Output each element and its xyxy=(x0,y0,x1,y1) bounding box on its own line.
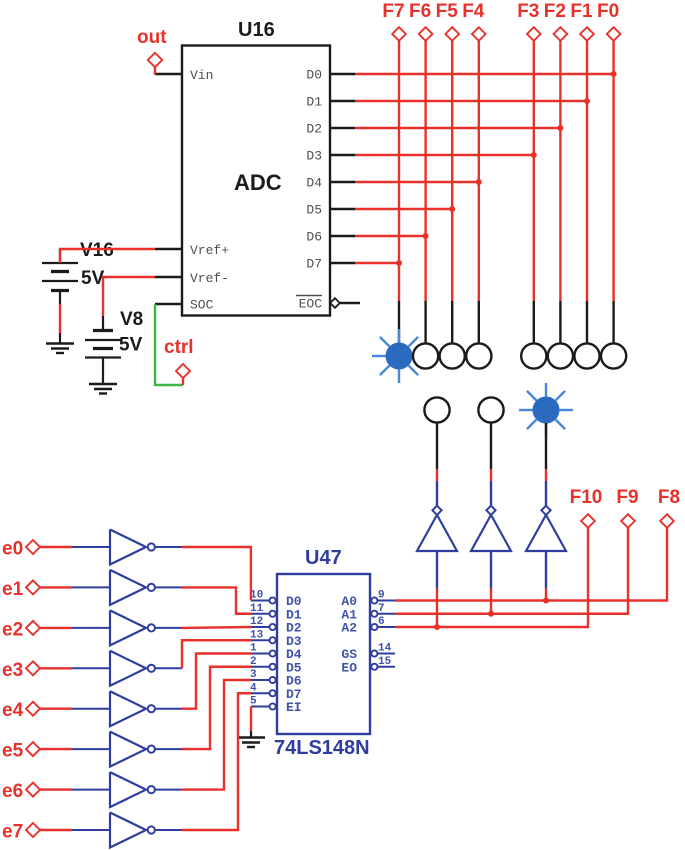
svg-text:1: 1 xyxy=(250,643,257,655)
node F1 riser wire xyxy=(586,41,588,301)
svg-text:F7: F7 xyxy=(382,1,404,22)
svg-text:Vref-: Vref- xyxy=(190,271,229,286)
svg-text:F5: F5 xyxy=(436,1,459,22)
svg-text:F10: F10 xyxy=(570,487,603,508)
node F6 riser wire xyxy=(424,41,426,301)
svg-text:e7: e7 xyxy=(2,822,23,843)
svg-text:U16: U16 xyxy=(238,19,275,41)
probe X4 xyxy=(466,343,491,368)
junction dot D6 xyxy=(423,233,429,239)
connector ctrl diamond xyxy=(176,364,190,378)
probe X7 xyxy=(574,343,599,368)
pin stub D1 xyxy=(330,100,355,102)
connector e2 diamond xyxy=(26,621,40,635)
buffer U11 output stub xyxy=(155,586,182,588)
wire probe lead F5 xyxy=(451,301,453,344)
junction dot A2 xyxy=(434,624,440,630)
wire probe lead F3 xyxy=(533,301,535,344)
svg-text:5: 5 xyxy=(250,696,257,708)
ground at EI xyxy=(250,731,252,738)
junction dot D1 xyxy=(584,98,590,104)
wire ctrl stub xyxy=(182,377,184,385)
junction dot D0 xyxy=(611,71,617,77)
svg-text:4: 4 xyxy=(250,682,257,694)
wire probe X11 lead xyxy=(545,423,547,469)
node F5 riser wire xyxy=(451,41,453,301)
node F4 riser wire xyxy=(478,41,480,301)
wire D2 to F2 riser xyxy=(355,127,560,129)
buffer U12 input stub xyxy=(72,627,110,629)
wire F10 xyxy=(395,528,588,627)
wire F9 xyxy=(395,528,628,614)
connector F4 diamond xyxy=(472,27,486,41)
svg-text:Vref+: Vref+ xyxy=(190,243,229,258)
buffer U12 triangle xyxy=(110,610,146,645)
connector F10 diamond xyxy=(581,514,595,528)
connector e7 diamond xyxy=(26,823,40,837)
inverter U3 bubble xyxy=(486,506,495,515)
wire F8 xyxy=(395,528,667,601)
ground below V16 xyxy=(59,333,61,344)
wire out to Vin xyxy=(154,67,156,75)
inverter U2 triangle xyxy=(417,515,457,551)
pin D5 stub+bubble of U47 xyxy=(251,666,270,668)
svg-text:e4: e4 xyxy=(2,700,24,721)
svg-text:D7: D7 xyxy=(306,257,322,272)
pin stub D3 xyxy=(330,154,355,156)
svg-text:3: 3 xyxy=(250,669,257,681)
node F2 riser wire xyxy=(559,41,561,301)
svg-text:e0: e0 xyxy=(2,539,23,560)
buffer U16 output stub xyxy=(155,789,182,791)
connector F7 diamond xyxy=(392,27,406,41)
pin D7 stub+bubble of U47 xyxy=(251,692,270,694)
svg-text:e1: e1 xyxy=(2,579,24,600)
pin stub Vref+ xyxy=(155,248,182,250)
svg-text:6: 6 xyxy=(378,616,385,628)
buffer U17 input stub xyxy=(72,829,110,831)
buffer U17 output stub xyxy=(155,829,182,831)
junction dot D5 xyxy=(449,206,455,212)
pin D6 stub+bubble of U47 xyxy=(251,679,270,681)
wire e6 to buffer xyxy=(40,788,72,790)
svg-text:Vin: Vin xyxy=(190,68,213,83)
svg-text:11: 11 xyxy=(250,603,264,615)
buffer U16 triangle xyxy=(110,772,146,807)
wire SOC to ctrl green xyxy=(155,304,183,385)
svg-text:D5: D5 xyxy=(306,203,322,218)
buffer U12 bubble xyxy=(148,624,155,631)
connector e4 diamond xyxy=(26,702,40,716)
svg-text:D0: D0 xyxy=(306,68,322,83)
pin stub D5 xyxy=(330,208,355,210)
svg-text:D2: D2 xyxy=(306,122,322,137)
pin D2 stub+bubble of U47 xyxy=(251,626,270,628)
wire probe lead F7 xyxy=(398,301,400,344)
wire e1 buffer output to U47 xyxy=(182,587,251,613)
pin stub D2 xyxy=(330,127,355,129)
svg-text:74LS148N: 74LS148N xyxy=(274,737,370,759)
wire e6 buffer output to U47 xyxy=(182,680,251,790)
inverter U4 input stub xyxy=(545,481,547,506)
svg-text:5V: 5V xyxy=(81,268,105,289)
wire e2 buffer output to U47 xyxy=(182,626,251,629)
svg-text:U47: U47 xyxy=(305,547,342,569)
pin A2 stub+bubble of U47 xyxy=(371,624,377,630)
svg-text:13: 13 xyxy=(250,629,264,641)
connector F3 diamond xyxy=(527,27,541,41)
svg-text:D1: D1 xyxy=(306,95,322,110)
pin D3 stub+bubble of U47 xyxy=(251,639,270,641)
connector F1 diamond xyxy=(580,27,594,41)
svg-text:D3: D3 xyxy=(306,149,322,164)
wire inverter U3 to A1 xyxy=(490,589,492,614)
inverter U4 output stub xyxy=(545,551,547,589)
junction dot A0 xyxy=(543,598,549,604)
pin D4 stub+bubble of U47 xyxy=(251,653,270,655)
inverter U2 output stub xyxy=(436,551,438,589)
wire inverter U4 to A0 xyxy=(545,589,547,601)
svg-text:A2: A2 xyxy=(341,621,357,636)
svg-text:F2: F2 xyxy=(544,1,566,22)
wire e0 to buffer xyxy=(40,546,72,548)
pin stub SOC xyxy=(155,303,182,305)
wire e4 buffer output to U47 xyxy=(182,654,251,709)
connector e3 diamond xyxy=(26,661,40,675)
buffer U13 triangle xyxy=(110,651,146,686)
buffer U15 input stub xyxy=(72,748,110,750)
pin stub Vin xyxy=(155,73,182,75)
inverter U2 bubble xyxy=(432,506,441,515)
buffer U14 output stub xyxy=(155,708,182,710)
buffer U11 bubble xyxy=(148,584,155,591)
probe X8 xyxy=(601,343,626,368)
connector e1 diamond xyxy=(26,580,40,594)
ADC U16 chip body xyxy=(182,46,330,316)
svg-text:SOC: SOC xyxy=(190,298,214,313)
buffer U14 triangle xyxy=(110,691,146,726)
wire D5 to F5 riser xyxy=(355,208,452,210)
wire probe X9 to inverter xyxy=(436,469,438,481)
svg-text:ADC: ADC xyxy=(234,170,282,195)
buffer U15 bubble xyxy=(148,746,155,753)
node F3 riser wire xyxy=(533,41,535,301)
buffer U10 triangle xyxy=(110,530,146,565)
pin EO stub+bubble of U47 xyxy=(371,664,377,670)
probe X5 xyxy=(521,343,546,368)
svg-text:e3: e3 xyxy=(2,660,23,681)
node F7 riser wire xyxy=(398,41,400,301)
pin EI stub+bubble of U47 xyxy=(251,706,270,708)
pin D1 stub+bubble of U47 xyxy=(251,613,270,615)
buffer U14 input stub xyxy=(72,708,110,710)
svg-text:ctrl: ctrl xyxy=(164,337,194,358)
pin stub D6 xyxy=(330,235,355,237)
junction dot A1 xyxy=(488,611,494,617)
svg-text:D4: D4 xyxy=(306,176,322,191)
battery V16 xyxy=(59,249,61,263)
inverter U4 bubble xyxy=(541,506,550,515)
wire V16 plus to Vref+ xyxy=(60,249,155,263)
junction dot D4 xyxy=(476,179,482,185)
ground below V8 xyxy=(89,383,117,385)
wire e3 to buffer xyxy=(40,667,72,669)
pin A0 stub+bubble of U47 xyxy=(371,597,377,603)
buffer U16 input stub xyxy=(72,789,110,791)
wire probe lead F2 xyxy=(559,301,561,344)
inverter U4 triangle xyxy=(526,515,566,551)
svg-text:F8: F8 xyxy=(658,487,680,508)
inverter U3 input stub xyxy=(490,481,492,506)
node F0 riser wire xyxy=(612,41,614,301)
wire inverter U2 to A2 xyxy=(436,589,438,628)
probe X11 lit (blue) xyxy=(519,383,573,437)
wire V16 minus to ground xyxy=(59,304,61,333)
svg-text:F0: F0 xyxy=(597,1,619,22)
wire e3 buffer output to U47 xyxy=(182,640,251,668)
connector F6 diamond xyxy=(419,27,433,41)
buffer U13 bubble xyxy=(148,665,155,672)
inverter U2 input stub xyxy=(436,481,438,506)
pin stub D4 xyxy=(330,181,355,183)
wire D1 to F1 riser xyxy=(355,100,587,102)
wire EI to ground xyxy=(250,707,252,732)
svg-text:7: 7 xyxy=(378,603,385,615)
svg-text:D6: D6 xyxy=(306,230,322,245)
svg-text:EO: EO xyxy=(341,660,357,675)
junction dot D7 xyxy=(396,260,402,266)
buffer U14 bubble xyxy=(148,705,155,712)
wire probe lead F4 xyxy=(478,301,480,344)
svg-text:14: 14 xyxy=(378,643,392,655)
svg-text:e6: e6 xyxy=(2,781,23,802)
junction dot D2 xyxy=(557,125,563,131)
wire D4 to F4 riser xyxy=(355,181,479,183)
svg-text:out: out xyxy=(137,27,167,48)
buffer U16 bubble xyxy=(148,786,155,793)
connector F5 diamond xyxy=(445,27,459,41)
pin stub D0 xyxy=(330,73,355,75)
probe X6 xyxy=(548,343,573,368)
svg-text:e5: e5 xyxy=(2,741,24,762)
svg-text:F3: F3 xyxy=(517,1,539,22)
probe X2 xyxy=(413,343,438,368)
pin GS stub+bubble of U47 xyxy=(371,650,377,656)
probe X10 xyxy=(478,397,503,422)
svg-text:e2: e2 xyxy=(2,619,23,640)
pin D0 stub+bubble of U47 xyxy=(251,600,270,602)
wire e0 buffer output to U47 xyxy=(182,547,251,601)
wire e5 buffer output to U47 xyxy=(182,667,251,749)
wire probe lead F0 xyxy=(612,301,614,344)
connector e5 diamond xyxy=(26,742,40,756)
probe X3 xyxy=(440,343,465,368)
wire e4 to buffer xyxy=(40,708,72,710)
probe X9 xyxy=(424,397,449,422)
svg-text:F9: F9 xyxy=(616,487,638,508)
wire D3 to F3 riser xyxy=(355,154,534,156)
svg-text:EI: EI xyxy=(286,700,302,715)
svg-text:EOC: EOC xyxy=(299,297,323,312)
connector F8 diamond xyxy=(660,514,674,528)
wire D7 to F7 riser xyxy=(355,262,399,264)
wire probe X11 to inverter xyxy=(545,469,547,481)
connector out diamond xyxy=(148,53,162,67)
wire e5 to buffer xyxy=(40,748,72,750)
probe X1 lit (blue) xyxy=(372,329,426,383)
wire D6 to F6 riser xyxy=(355,235,426,237)
svg-text:V16: V16 xyxy=(80,240,114,261)
connector e6 diamond xyxy=(26,783,40,797)
wire probe X10 lead xyxy=(490,423,492,469)
wire e1 to buffer xyxy=(40,586,72,588)
svg-text:12: 12 xyxy=(250,616,263,628)
wire e7 to buffer xyxy=(40,829,72,831)
pin EOC bubble and stub xyxy=(330,298,340,308)
battery V8 xyxy=(102,316,104,331)
connector e0 diamond xyxy=(26,540,40,554)
wire probe X10 to inverter xyxy=(490,469,492,481)
pin stub Vref- xyxy=(155,276,182,278)
buffer U11 input stub xyxy=(72,586,110,588)
inverter U3 triangle xyxy=(471,515,511,551)
buffer U10 bubble xyxy=(148,543,155,550)
wire Vref- to V8 xyxy=(103,277,155,316)
buffer U15 output stub xyxy=(155,748,182,750)
buffer U12 output stub xyxy=(155,627,182,629)
buffer U15 triangle xyxy=(110,732,146,767)
buffer U17 triangle xyxy=(110,813,146,848)
connector F0 diamond xyxy=(607,27,621,41)
connector F9 diamond xyxy=(621,514,635,528)
svg-text:F1: F1 xyxy=(570,1,593,22)
pin stub D7 xyxy=(330,262,355,264)
svg-text:F4: F4 xyxy=(462,1,485,22)
inverter U3 output stub xyxy=(490,551,492,589)
svg-text:5V: 5V xyxy=(119,335,143,356)
buffer U10 output stub xyxy=(155,546,182,548)
pin A1 stub+bubble of U47 xyxy=(371,611,377,617)
svg-text:15: 15 xyxy=(378,656,392,668)
svg-text:V8: V8 xyxy=(120,309,143,330)
connector F2 diamond xyxy=(554,27,568,41)
junction dot D3 xyxy=(531,152,537,158)
buffer U17 bubble xyxy=(148,826,155,833)
wire e2 to buffer xyxy=(40,627,72,629)
wire probe lead F6 xyxy=(424,301,426,344)
wire D0 to F0 riser xyxy=(355,73,614,75)
wire e7 buffer output to U47 xyxy=(182,693,251,830)
wire probe lead F1 xyxy=(586,301,588,344)
buffer U11 triangle xyxy=(110,570,146,605)
svg-text:9: 9 xyxy=(378,590,385,602)
buffer U13 input stub xyxy=(72,667,110,669)
buffer U13 output stub xyxy=(155,667,182,669)
wire probe X9 lead xyxy=(436,423,438,469)
chip U47 74LS148N body xyxy=(277,574,370,734)
buffer U10 input stub xyxy=(72,546,110,548)
svg-text:F6: F6 xyxy=(409,1,431,22)
